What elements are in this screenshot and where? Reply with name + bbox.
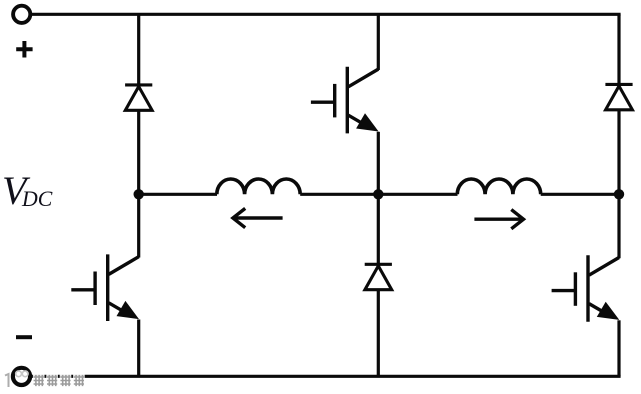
wire bottom rail <box>30 375 620 378</box>
current arrow right (pointing right) <box>474 210 523 229</box>
wire L2 to node C <box>541 193 619 196</box>
diode D1 <box>125 85 152 110</box>
current arrow left (pointing left) <box>233 208 283 227</box>
watermark text "glyphs" <box>33 374 85 387</box>
wire top rail <box>31 13 621 16</box>
node B <box>373 189 383 199</box>
wire D1 to node A <box>137 110 140 194</box>
wire top rail to Q1 collector <box>377 14 380 70</box>
wire node A to Q2 collector <box>137 194 140 257</box>
wire Q2 emitter to bottom rail <box>137 320 140 377</box>
diode D2 (middle leg) <box>365 264 392 289</box>
wire Q1 emitter to node B <box>377 132 380 195</box>
wire node A to inductor L1 <box>139 193 217 196</box>
wire top rail to diode D1 <box>137 14 140 84</box>
wire L1 to node B <box>300 193 378 196</box>
terminal T2 (negative DC input) <box>13 368 30 385</box>
inductor L2 <box>457 179 540 194</box>
wire D2 to bottom rail <box>377 290 380 377</box>
wire node B to diode D2 <box>377 194 380 264</box>
wire node C to Q3 collector <box>617 194 620 258</box>
transistor Q2 (IGBT bottom-left) <box>71 254 139 321</box>
inductor L1 <box>217 179 300 194</box>
plus sign <box>16 41 32 58</box>
wire Q3 emitter to bottom rail <box>617 320 620 376</box>
node A <box>134 189 144 199</box>
wire D3 to node C <box>617 110 620 195</box>
transistor Q3 (IGBT bottom-right) <box>552 255 620 322</box>
svg-text:DC: DC <box>21 187 53 211</box>
wire node B to inductor L2 <box>378 193 457 196</box>
diode D3 <box>605 84 632 109</box>
watermark (logo digits over terminal) <box>5 371 28 387</box>
minus sign <box>16 335 32 339</box>
terminal T1 (positive DC input) <box>13 6 30 23</box>
transistor Q1 (IGBT top-middle) <box>311 67 379 134</box>
node C <box>614 189 624 199</box>
wire top rail to diode D3 <box>617 14 620 84</box>
